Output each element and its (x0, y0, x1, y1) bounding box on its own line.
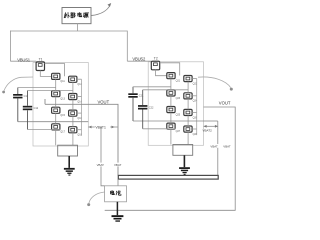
wire (18, 87, 56, 89)
wire (133, 120, 204, 122)
net label VBAT1 (95, 124, 110, 129)
ground module 2 (179, 155, 190, 175)
leader dot module 1 (2, 91, 5, 94)
switch Q18 (69, 127, 77, 133)
leader curve module 1 (4, 77, 33, 91)
wire (143, 89, 188, 91)
wire input module 1 (10, 60, 36, 62)
svg-text:VBUS2: VBUS2 (132, 57, 146, 62)
switch Q17 (52, 124, 60, 130)
svg-text:Q11: Q11 (60, 80, 65, 83)
wire (77, 129, 82, 131)
svg-text:Q15: Q15 (60, 114, 65, 117)
wire (143, 128, 176, 130)
svg-text:VBAT: VBAT (210, 144, 218, 148)
svg-text:C22: C22 (149, 107, 154, 110)
svg-text:Q27: Q27 (176, 130, 181, 133)
switch T1 (36, 62, 44, 71)
net label VBAT (left riser 2) (114, 163, 124, 167)
wire (72, 82, 74, 145)
leader dot module 2 (230, 88, 233, 91)
capacitor C21 (128, 87, 137, 121)
leader dot battery (87, 203, 90, 206)
switch Q21 (167, 73, 175, 79)
wire (81, 79, 83, 136)
wire (156, 70, 167, 76)
svg-text:VBUS1: VBUS1 (17, 57, 31, 62)
wire bus left drop (9, 31, 11, 62)
wire bus to battery (117, 179, 119, 186)
svg-text:Q13: Q13 (60, 98, 65, 101)
switch Q16 (69, 110, 77, 116)
battery box (105, 186, 127, 202)
switch Q11 (52, 73, 60, 79)
switch Q23 (167, 90, 175, 96)
charge module 2 boundary (148, 62, 203, 146)
wire VOUT module 1 (45, 99, 118, 175)
figure leader arrow 10 (92, 5, 111, 16)
wire (77, 96, 82, 98)
svg-text:Q23: Q23 (176, 97, 181, 100)
leader curve battery (89, 192, 105, 203)
net label VBAT (right riser 1) (210, 144, 220, 148)
wire VOUT module 2 (105, 107, 236, 210)
svg-text:C21: C21 (139, 95, 144, 98)
arrowhead (108, 3, 112, 7)
switch T2 (151, 61, 159, 70)
wire (28, 90, 73, 92)
top bus wire (10, 30, 127, 32)
ground battery (112, 215, 124, 222)
wire (187, 82, 189, 145)
svg-text:VOUT: VOUT (219, 100, 231, 105)
svg-text:Q17: Q17 (60, 131, 65, 134)
switch Q28 (184, 126, 192, 132)
wire (133, 86, 171, 88)
external power supply box (62, 8, 91, 24)
wire battery riser left (101, 127, 105, 186)
wire bus right drop (126, 31, 128, 62)
arrowhead right (215, 125, 218, 128)
wire (45, 64, 65, 77)
svg-text:Q25: Q25 (176, 113, 181, 116)
capacitor C12 (23, 91, 32, 130)
wire (55, 79, 57, 145)
capacitor C22 (138, 90, 147, 129)
switch Q27 (167, 123, 175, 129)
wire (77, 112, 82, 114)
leader curve module 2 (198, 77, 231, 88)
arrowhead left (204, 125, 207, 128)
svg-text:Q21: Q21 (176, 80, 181, 83)
svg-text:VBAT: VBAT (114, 163, 122, 167)
wire riser to bus right end (217, 121, 219, 175)
wire (196, 79, 198, 136)
wire (40, 71, 51, 77)
switch Q13 (52, 91, 60, 97)
capacitor C11 (13, 88, 22, 122)
charge module 1 boundary (33, 63, 88, 147)
svg-text:C12: C12 (34, 107, 39, 110)
switch Q22 (184, 76, 192, 82)
svg-text:T2: T2 (154, 57, 158, 61)
wire (170, 79, 172, 145)
wire VBAT1 annotation with arrows (88, 126, 117, 128)
arrowhead right (112, 126, 115, 129)
wire (77, 78, 82, 80)
switch Q24 (184, 93, 192, 99)
svg-text:T1: T1 (39, 57, 43, 61)
switch Q15 (52, 107, 60, 113)
net label VBAT (left riser 1) (96, 163, 106, 167)
wire (18, 121, 89, 123)
ground module 1 (64, 156, 75, 176)
wire (192, 95, 197, 97)
switch Q26 (184, 109, 192, 115)
wire battery to ground (116, 202, 118, 215)
wire (192, 78, 197, 80)
wire (192, 111, 197, 113)
svg-text:VBAT: VBAT (97, 163, 105, 167)
wire VBAT2 annotation with arrows (204, 125, 218, 127)
arrowhead left (89, 126, 92, 129)
switch Q14 (69, 94, 77, 100)
wire (28, 129, 61, 131)
switch Q25 (167, 107, 175, 113)
wire input module 2 (127, 60, 151, 62)
switch Q12 (69, 76, 77, 82)
svg-text:VOUT: VOUT (98, 99, 110, 104)
wire (160, 63, 180, 76)
output block module 1 (58, 145, 78, 156)
wire cap C21 bottom to riser (204, 120, 218, 122)
output block module 2 (173, 145, 193, 156)
wire power to bus (77, 24, 79, 31)
svg-text:VBAT2: VBAT2 (203, 129, 213, 133)
svg-text:VBAT: VBAT (223, 144, 231, 148)
VBAT bus bar (118, 175, 218, 179)
wire (192, 128, 197, 130)
